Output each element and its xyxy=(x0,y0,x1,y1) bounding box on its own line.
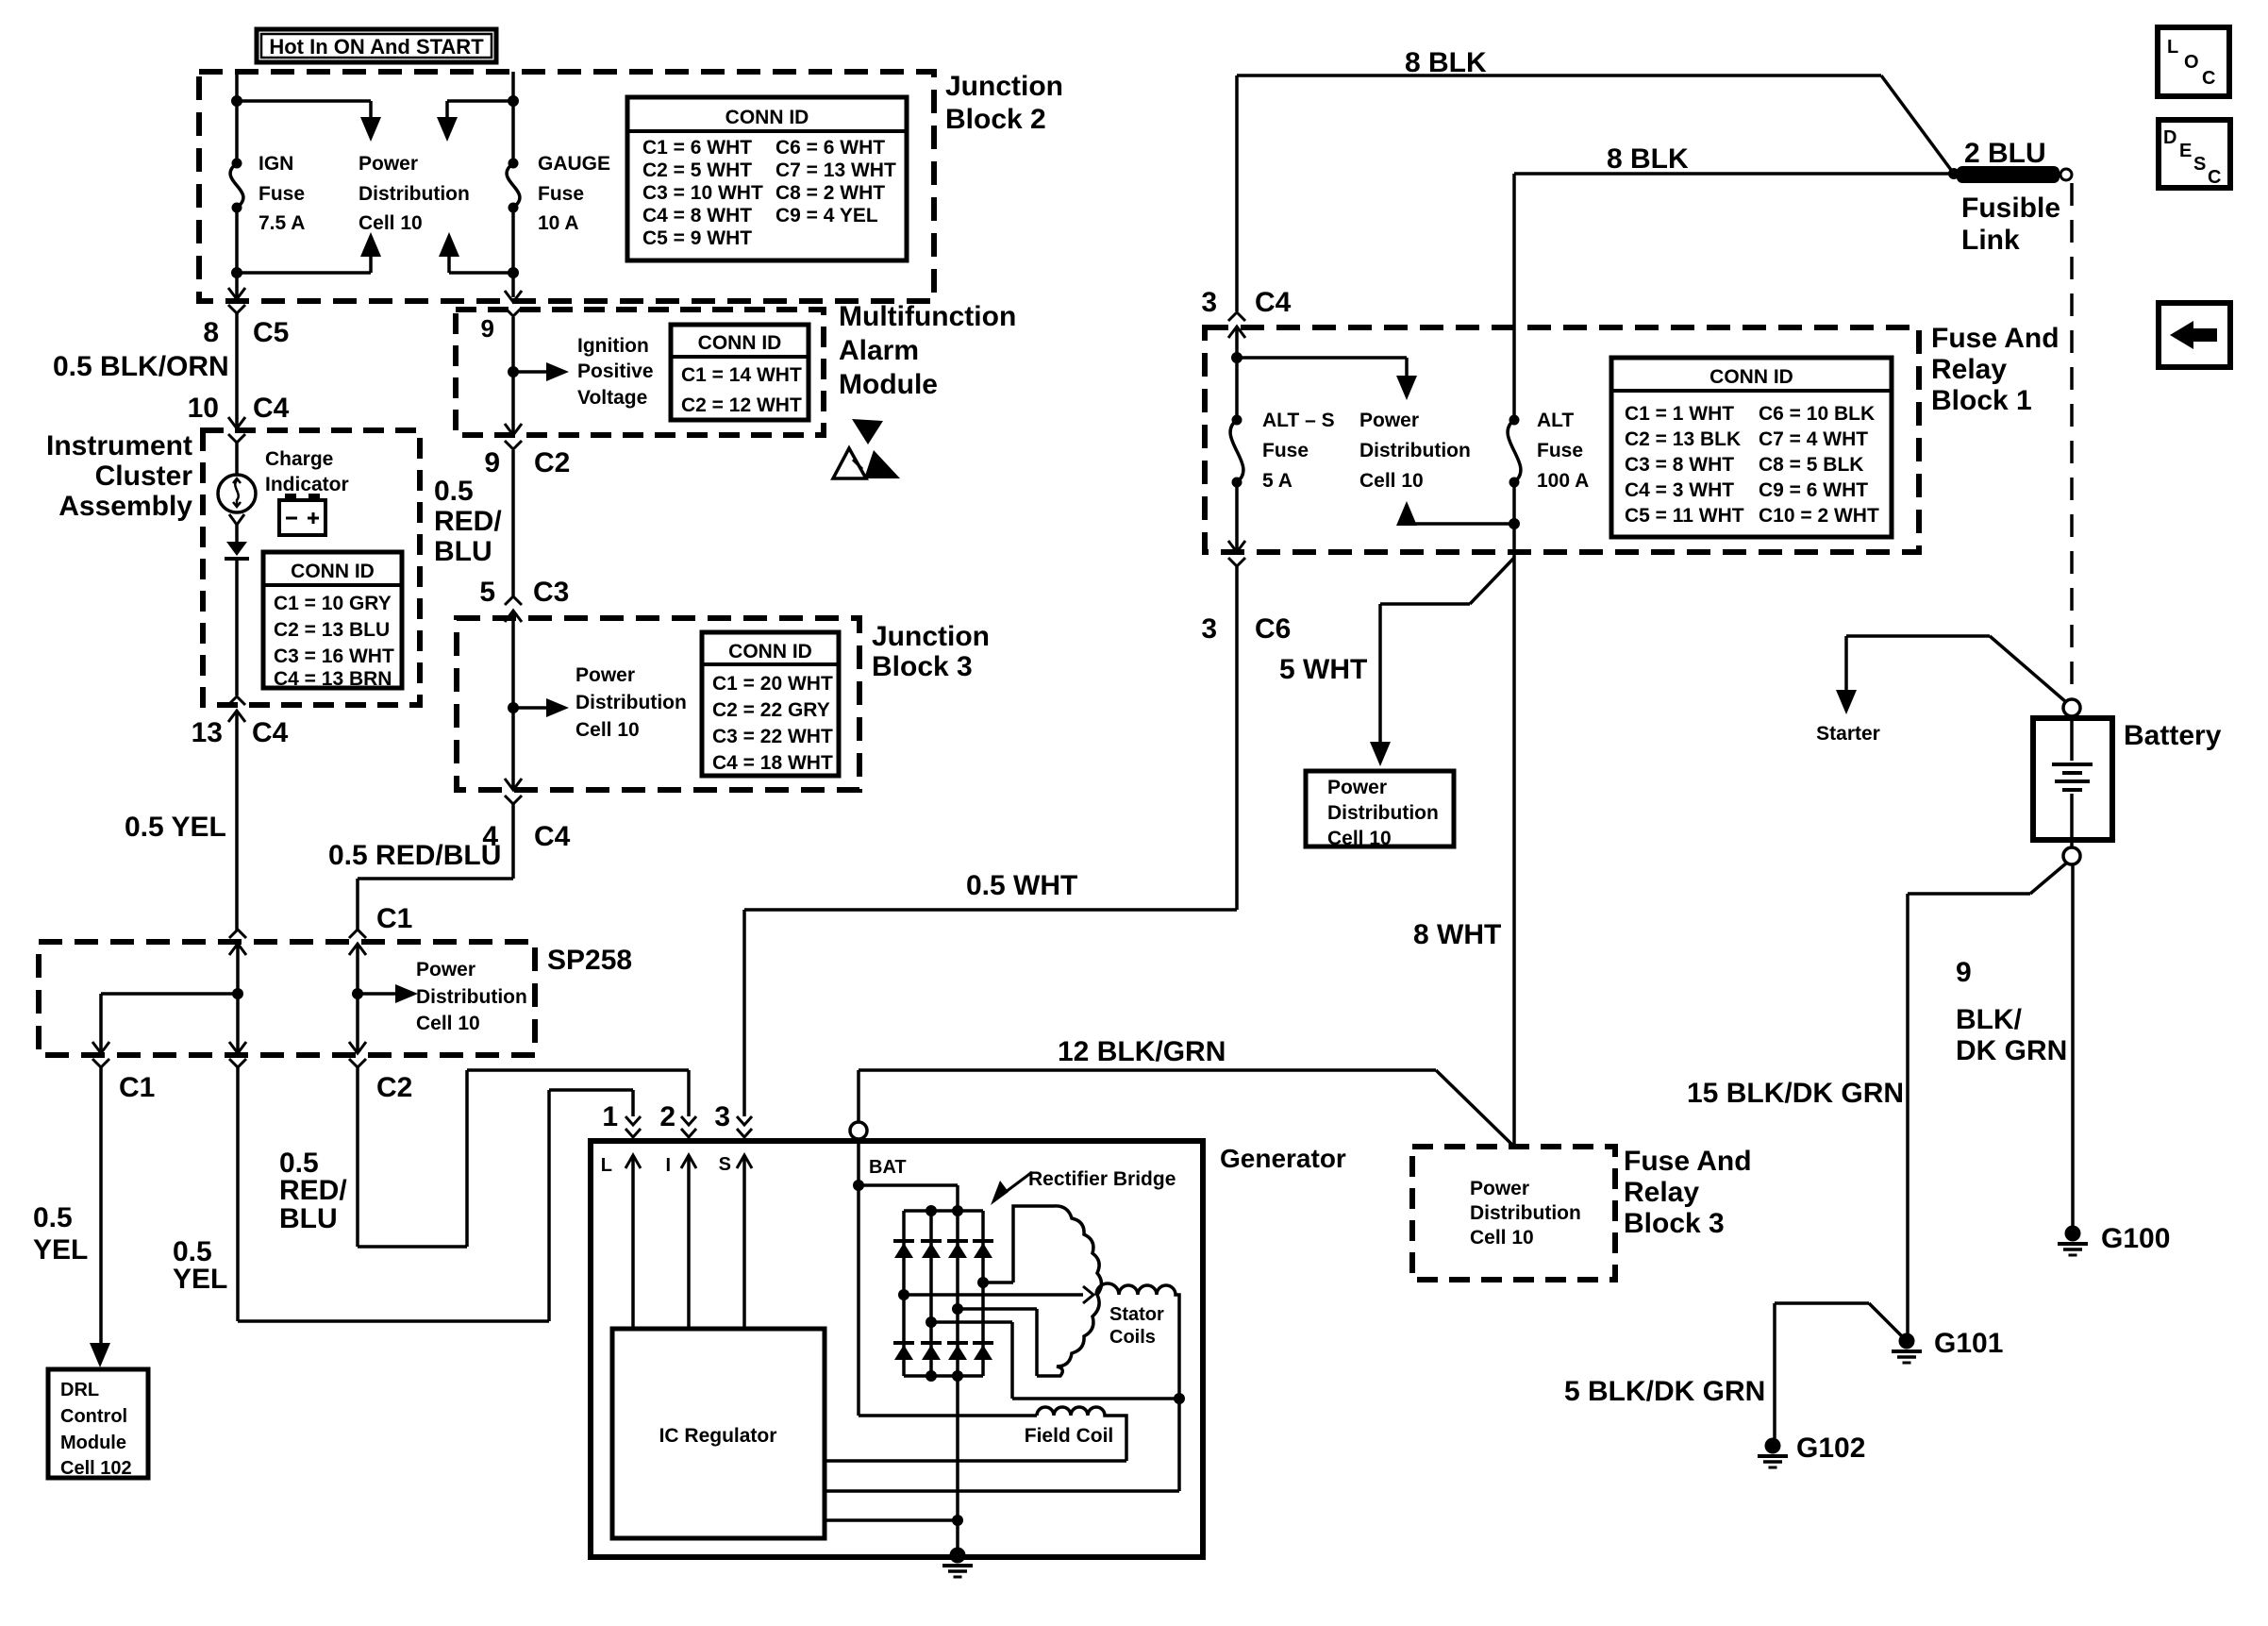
rectifier bridge buses xyxy=(904,1205,983,1382)
svg-text:ALT: ALT xyxy=(1537,410,1574,431)
svg-text:Cluster: Cluster xyxy=(95,461,193,492)
svg-text:Cell 10: Cell 10 xyxy=(1470,1227,1534,1249)
wire 0.5 WHT (to generator S) xyxy=(744,566,1237,1116)
stator coils fan xyxy=(1013,1206,1102,1376)
svg-text:Power: Power xyxy=(1327,777,1387,798)
label Power Distribution Cell 10 (JB3) xyxy=(575,664,687,741)
connector C1 (SP258 bottom left) xyxy=(92,1042,155,1103)
svg-text:D: D xyxy=(2163,127,2176,148)
svg-text:3: 3 xyxy=(714,1101,730,1132)
fuse ALT-S 5 A xyxy=(1230,410,1335,492)
svg-text:Instrument: Instrument xyxy=(46,430,192,461)
svg-text:0.5: 0.5 xyxy=(434,476,474,507)
svg-text:C1 = 20 WHT: C1 = 20 WHT xyxy=(712,673,833,695)
label Junction Block 3 xyxy=(872,621,990,682)
wire ALT fuse drop xyxy=(1508,410,1589,492)
wire 0.5 YEL (cluster to SP258) xyxy=(125,711,237,930)
svg-text:C2 = 22 GRY: C2 = 22 GRY xyxy=(712,699,830,721)
label Generator xyxy=(1220,1144,1346,1173)
svg-text:CONN ID: CONN ID xyxy=(291,561,375,582)
svg-text:Stator: Stator xyxy=(1109,1304,1164,1325)
connector table CONN ID junction block 3 xyxy=(702,632,839,776)
label pin 9 (module top) xyxy=(481,314,494,343)
svg-text:C3 = 16 WHT: C3 = 16 WHT xyxy=(274,645,394,667)
svg-text:C3 = 8 WHT: C3 = 8 WHT xyxy=(1625,454,1734,476)
svg-text:2 BLU: 2 BLU xyxy=(1964,138,2046,169)
svg-text:CONN ID: CONN ID xyxy=(698,332,782,354)
svg-text:Module: Module xyxy=(839,369,938,400)
svg-text:IGN: IGN xyxy=(258,153,293,175)
svg-text:8 WHT: 8 WHT xyxy=(1413,919,1501,950)
rectifier bridge diodes row 1 xyxy=(893,1241,993,1258)
svg-text:C1 = 14 WHT: C1 = 14 WHT xyxy=(681,364,802,386)
connector C6 pin 3 xyxy=(1201,541,1291,645)
field coil xyxy=(1025,1407,1126,1461)
svg-text:BLU: BLU xyxy=(434,536,492,567)
rectifier bridge diodes row 2 xyxy=(893,1343,993,1360)
svg-text:SP258: SP258 xyxy=(547,945,632,976)
svg-text:8 BLK: 8 BLK xyxy=(1607,143,1689,175)
svg-text:Alarm: Alarm xyxy=(839,335,919,366)
ground G101 xyxy=(1892,1328,2003,1363)
connector C4 pin 3 (FRB1 top) xyxy=(1201,287,1291,338)
wire 0.5 BLK/ORN xyxy=(53,313,237,427)
header box back-arrow xyxy=(2159,303,2230,367)
svg-text:C4: C4 xyxy=(534,821,571,852)
wire 8 WHT label xyxy=(1413,919,1501,950)
svg-text:Block 1: Block 1 xyxy=(1931,385,2032,416)
svg-text:C7 = 4 WHT: C7 = 4 WHT xyxy=(1759,428,1868,450)
battery xyxy=(2033,699,2222,864)
svg-text:Power: Power xyxy=(1470,1178,1529,1199)
svg-text:S: S xyxy=(2193,154,2206,175)
svg-text:G101: G101 xyxy=(1934,1328,2003,1359)
svg-text:C7 = 13 WHT: C7 = 13 WHT xyxy=(775,159,896,181)
label Power Distribution Cell 10 (FRB3) xyxy=(1470,1178,1581,1249)
connector generator terminal 2 xyxy=(659,1101,696,1137)
diode symbol xyxy=(225,542,249,559)
wire GAUGE fuse feed xyxy=(511,72,515,297)
svg-text:ALT – S: ALT – S xyxy=(1262,410,1335,431)
svg-text:C4 = 18 WHT: C4 = 18 WHT xyxy=(712,752,833,774)
fuse and relay block 3 dashed outline xyxy=(1412,1147,1615,1280)
svg-text:Field Coil: Field Coil xyxy=(1025,1425,1114,1447)
svg-text:Block 2: Block 2 xyxy=(945,104,1046,135)
svg-text:YEL: YEL xyxy=(33,1234,88,1266)
IC regulator wire to field coil xyxy=(825,1459,1126,1463)
svg-text:C8 = 2 WHT: C8 = 2 WHT xyxy=(775,182,885,204)
svg-text:Distribution: Distribution xyxy=(1359,440,1471,461)
generator terminal I xyxy=(665,1155,696,1329)
svg-text:Positive: Positive xyxy=(577,360,654,382)
instrument cluster assembly dashed outline xyxy=(203,430,420,705)
svg-text:S: S xyxy=(719,1154,731,1175)
wire 5 BLK/DK GRN to G102 xyxy=(1564,1303,1903,1438)
svg-text:C3 = 10 WHT: C3 = 10 WHT xyxy=(642,182,763,204)
connector table CONN ID multifunction alarm module xyxy=(671,325,809,420)
svg-text:Indicator: Indicator xyxy=(265,474,349,495)
IC regulator wire to ground bus xyxy=(825,1515,963,1526)
wire 0.5 RED/BLU (module to JB3) xyxy=(434,450,513,596)
svg-text:Block 3: Block 3 xyxy=(872,651,973,682)
svg-text:C4: C4 xyxy=(1255,287,1292,318)
svg-text:C5 = 9 WHT: C5 = 9 WHT xyxy=(642,227,752,249)
label Fuse And Relay Block 3 xyxy=(1624,1146,1752,1239)
svg-text:YEL: YEL xyxy=(173,1264,227,1295)
svg-text:Cell 10: Cell 10 xyxy=(416,1013,480,1034)
label Rectifier Bridge with arrow xyxy=(991,1168,1176,1205)
svg-text:Junction: Junction xyxy=(872,621,990,652)
wire power distribution return (right bottom) xyxy=(439,232,519,278)
svg-text:Power: Power xyxy=(1359,410,1419,431)
svg-text:15 BLK/DK GRN: 15 BLK/DK GRN xyxy=(1687,1078,1904,1109)
fusible link 2 BLU xyxy=(1948,138,2072,256)
svg-text:8: 8 xyxy=(203,317,219,348)
wire 5 WHT xyxy=(1279,558,1514,766)
multifunction alarm module dashed outline xyxy=(456,310,824,435)
label SP258 xyxy=(547,945,632,976)
svg-text:Control: Control xyxy=(60,1406,127,1427)
wire ALT-S fuse feed xyxy=(1231,327,1417,420)
connector C2 (SP258 bottom right) xyxy=(349,1042,412,1103)
DRL control module box xyxy=(48,1369,148,1479)
svg-text:C5 = 11 WHT: C5 = 11 WHT xyxy=(1625,505,1744,527)
wire 9 BLK/DK GRN to G100 xyxy=(1956,864,2073,1226)
connector C1 (SP258 top) xyxy=(376,903,412,934)
label Charge Indicator xyxy=(265,448,349,495)
wire BAT internal xyxy=(853,1139,1037,1416)
ground G102 xyxy=(1758,1433,1865,1467)
svg-text:Hot In ON And START: Hot In ON And START xyxy=(269,35,484,59)
svg-text:Distribution: Distribution xyxy=(1470,1202,1581,1224)
wire junction to power distribution (right top) xyxy=(437,95,519,142)
svg-text:2: 2 xyxy=(659,1101,675,1132)
wire 0.5 RED/BLU to generator I xyxy=(279,1067,689,1247)
label Junction Block 2 xyxy=(945,71,1063,135)
svg-text:Fuse And: Fuse And xyxy=(1931,323,2060,354)
svg-text:3: 3 xyxy=(1201,613,1217,645)
svg-text:C5: C5 xyxy=(253,317,289,348)
svg-text:5 BLK/DK GRN: 5 BLK/DK GRN xyxy=(1564,1376,1765,1407)
svg-text:8 BLK: 8 BLK xyxy=(1405,47,1487,78)
svg-text:C: C xyxy=(2202,68,2215,89)
header box LOC xyxy=(2158,27,2229,96)
svg-text:BLU: BLU xyxy=(279,1203,338,1234)
svg-text:Fuse: Fuse xyxy=(1262,440,1309,461)
junction block 3 dashed outline xyxy=(457,618,859,790)
svg-text:3: 3 xyxy=(1201,287,1217,318)
svg-text:0.5 RED/BLU: 0.5 RED/BLU xyxy=(328,840,501,871)
svg-text:C1 = 1 WHT: C1 = 1 WHT xyxy=(1625,403,1734,425)
svg-text:C: C xyxy=(2208,167,2221,188)
wire to cluster bottom xyxy=(235,559,239,696)
label Power Distribution Cell 10 (FRB1) xyxy=(1359,410,1471,492)
charge indicator lamp xyxy=(218,443,256,512)
generator box xyxy=(591,1141,1203,1557)
svg-text:RED/: RED/ xyxy=(434,506,502,537)
svg-text:G100: G100 xyxy=(2101,1223,2170,1254)
svg-text:9: 9 xyxy=(481,314,494,343)
IC regulator wire to stator xyxy=(825,1399,1179,1491)
svg-text:Fusible: Fusible xyxy=(1961,193,2060,224)
svg-text:C3 = 22 WHT: C3 = 22 WHT xyxy=(712,726,833,747)
svg-text:IC Regulator: IC Regulator xyxy=(659,1425,777,1447)
wire 15 BLK/DK GRN to G101 xyxy=(1687,863,2067,1333)
svg-text:L: L xyxy=(2167,37,2178,58)
svg-text:C2: C2 xyxy=(534,447,570,478)
svg-text:Cell 10: Cell 10 xyxy=(359,212,423,234)
fuse IGN 7.5 A xyxy=(230,153,305,234)
svg-text:CONN ID: CONN ID xyxy=(728,641,812,662)
connector generator terminal 3 xyxy=(714,1101,752,1137)
connector into SP258 (C1) xyxy=(349,930,366,955)
svg-text:DK GRN: DK GRN xyxy=(1956,1035,2067,1066)
fuse GAUGE 10 A xyxy=(507,153,610,234)
svg-text:9: 9 xyxy=(484,447,500,478)
svg-text:Multifunction: Multifunction xyxy=(839,301,1016,332)
connector C5 pin 8 xyxy=(203,288,289,348)
svg-text:I: I xyxy=(665,1155,671,1176)
svg-text:BLK/: BLK/ xyxy=(1956,1004,2023,1035)
SP258 internal wires xyxy=(101,944,418,1053)
svg-text:Relay: Relay xyxy=(1624,1177,1699,1208)
svg-text:RED/: RED/ xyxy=(279,1175,347,1206)
fuse and relay block 1 dashed outline xyxy=(1205,327,1919,552)
svg-text:L: L xyxy=(601,1155,612,1176)
stator phase wire C xyxy=(952,1303,1037,1376)
wire power distribution return (left bottom) xyxy=(231,232,381,278)
connector (SP258 bottom middle) xyxy=(229,1042,246,1067)
generator terminal S xyxy=(719,1154,752,1329)
connector C3 pin 5 xyxy=(479,577,569,622)
svg-text:Assembly: Assembly xyxy=(58,491,192,522)
svg-text:12 BLK/GRN: 12 BLK/GRN xyxy=(1058,1036,1226,1067)
svg-text:100 A: 100 A xyxy=(1537,470,1589,492)
connector C2 pin 9 xyxy=(484,424,570,478)
svg-text:Rectifier Bridge: Rectifier Bridge xyxy=(1028,1168,1176,1190)
label Fuse And Relay Block 1 xyxy=(1931,323,2060,416)
wire ALT-S fuse output xyxy=(1235,482,1239,552)
svg-text:O: O xyxy=(2184,52,2199,73)
svg-text:C4: C4 xyxy=(253,393,290,424)
SP258 dashed outline xyxy=(39,942,535,1055)
fork below charge indicator xyxy=(229,514,244,544)
svg-text:Junction: Junction xyxy=(945,71,1063,102)
generator terminal L xyxy=(601,1155,641,1329)
svg-text:Link: Link xyxy=(1961,225,2020,256)
svg-text:5 A: 5 A xyxy=(1262,470,1292,492)
wire 0.5 YEL to generator L xyxy=(173,1067,633,1321)
svg-text:Distribution: Distribution xyxy=(1327,802,1439,824)
svg-text:C10 = 2 WHT: C10 = 2 WHT xyxy=(1759,505,1879,527)
ground G100 xyxy=(2058,1223,2170,1255)
BAT terminal circle xyxy=(850,1122,907,1178)
wire junction to power distribution (left top) xyxy=(231,95,381,142)
connector C4 pin 10 xyxy=(188,393,290,443)
ESD warning symbol xyxy=(833,419,900,478)
wire ALT fuse lower junction xyxy=(1396,482,1520,1147)
connector C4 pin 13 xyxy=(192,696,289,748)
svg-text:Cell 10: Cell 10 xyxy=(1327,828,1392,849)
svg-text:C9 = 4 YEL: C9 = 4 YEL xyxy=(775,205,878,226)
wire ignition positive voltage xyxy=(508,317,569,433)
dashed battery feed wire xyxy=(2070,183,2074,696)
wire 8 BLK (upper) xyxy=(1237,47,1954,311)
svg-text:E: E xyxy=(2179,141,2192,161)
svg-text:Distribution: Distribution xyxy=(416,986,527,1008)
wire through junction block 3 xyxy=(508,611,569,788)
svg-text:Coils: Coils xyxy=(1109,1327,1156,1348)
label Ignition Positive Voltage xyxy=(577,335,654,409)
svg-text:Fuse: Fuse xyxy=(538,183,584,205)
svg-text:0.5 BLK/ORN: 0.5 BLK/ORN xyxy=(53,351,229,382)
svg-text:Fuse: Fuse xyxy=(1537,440,1583,461)
svg-text:Ignition: Ignition xyxy=(577,335,649,357)
svg-text:0.5 WHT: 0.5 WHT xyxy=(966,870,1077,901)
power distribution cell 10 box (right) xyxy=(1306,771,1454,849)
wire 0.5 RED/BLU (JB3 to SP258 C1) xyxy=(328,804,513,930)
connector table CONN ID fuse and relay block 1 xyxy=(1611,358,1892,537)
wire 12 BLK/GRN xyxy=(859,1036,1514,1147)
svg-text:Power: Power xyxy=(575,664,635,686)
header box DESC xyxy=(2159,120,2230,188)
svg-text:Distribution: Distribution xyxy=(575,692,687,713)
svg-text:C6 = 10 BLK: C6 = 10 BLK xyxy=(1759,403,1875,425)
IC regulator box xyxy=(612,1329,825,1538)
wire 8 BLK (lower) xyxy=(1514,143,1954,420)
svg-text:C2 = 13 BLK: C2 = 13 BLK xyxy=(1625,428,1741,450)
svg-text:7.5 A: 7.5 A xyxy=(258,212,305,234)
wire IGN fuse feed xyxy=(235,72,239,297)
stator coils winding xyxy=(1096,1283,1179,1399)
svg-text:G102: G102 xyxy=(1796,1433,1865,1464)
svg-text:Voltage: Voltage xyxy=(577,387,647,409)
svg-text:Battery: Battery xyxy=(2124,720,2222,751)
svg-text:13: 13 xyxy=(192,717,223,748)
svg-text:1: 1 xyxy=(602,1101,618,1132)
svg-text:C1 = 10 GRY: C1 = 10 GRY xyxy=(274,593,392,614)
svg-text:10 A: 10 A xyxy=(538,212,579,234)
svg-text:C6 = 6 WHT: C6 = 6 WHT xyxy=(775,137,885,159)
svg-text:C4: C4 xyxy=(252,717,289,748)
svg-text:Generator: Generator xyxy=(1220,1144,1346,1173)
svg-text:Starter: Starter xyxy=(1816,723,1880,745)
svg-text:9: 9 xyxy=(1956,957,1972,988)
svg-text:Cell 10: Cell 10 xyxy=(1359,470,1424,492)
connector C4 pin 4 xyxy=(482,779,570,852)
svg-text:Charge: Charge xyxy=(265,448,333,470)
svg-text:C2 = 5 WHT: C2 = 5 WHT xyxy=(642,159,752,181)
connector table CONN ID instrument cluster xyxy=(263,552,402,690)
label Power Distribution Cell 10 (JB2) xyxy=(359,153,470,234)
svg-text:Module: Module xyxy=(60,1433,126,1453)
svg-text:C1 = 6 WHT: C1 = 6 WHT xyxy=(642,137,752,159)
svg-text:Block 3: Block 3 xyxy=(1624,1208,1725,1239)
connector into SP258 (0.5 YEL) xyxy=(229,930,246,955)
rectifier bridge columns xyxy=(904,1185,983,1376)
label Multifunction Alarm Module xyxy=(839,301,1016,400)
label Instrument Cluster Assembly xyxy=(46,430,192,522)
svg-text:C8 = 5 BLK: C8 = 5 BLK xyxy=(1759,454,1863,476)
svg-text:Relay: Relay xyxy=(1931,354,2007,385)
svg-text:Cell 10: Cell 10 xyxy=(575,719,640,741)
connector at JB2 bottom right xyxy=(505,291,522,316)
svg-text:DRL: DRL xyxy=(60,1380,99,1400)
generator ground xyxy=(942,1376,973,1577)
svg-text:10: 10 xyxy=(188,393,219,424)
svg-text:5 WHT: 5 WHT xyxy=(1279,654,1367,685)
junction block 2 dashed outline xyxy=(199,72,934,301)
svg-text:C2 = 12 WHT: C2 = 12 WHT xyxy=(681,394,802,416)
svg-text:CONN ID: CONN ID xyxy=(1709,366,1793,388)
label box "Hot In ON And START" xyxy=(257,29,496,62)
svg-text:Fuse: Fuse xyxy=(258,183,305,205)
svg-text:C2 = 13 BLU: C2 = 13 BLU xyxy=(274,619,390,641)
stator phase wire D xyxy=(926,1316,1185,1404)
wire 0.5 YEL to DRL module xyxy=(33,1067,110,1367)
svg-text:Distribution: Distribution xyxy=(359,183,470,205)
svg-text:CONN ID: CONN ID xyxy=(725,107,809,128)
battery icon (charge indicator) xyxy=(279,494,325,535)
svg-text:5: 5 xyxy=(479,577,495,608)
svg-text:C1: C1 xyxy=(119,1072,155,1103)
svg-text:0.5: 0.5 xyxy=(33,1202,73,1233)
wire to starter xyxy=(1816,636,2066,745)
svg-text:C4 = 13 BRN: C4 = 13 BRN xyxy=(274,668,392,690)
stator phase wire A xyxy=(898,1286,1093,1303)
svg-text:C2: C2 xyxy=(376,1072,412,1103)
svg-text:C6: C6 xyxy=(1255,613,1291,645)
stator phase wire B xyxy=(977,1277,1013,1288)
svg-text:BAT: BAT xyxy=(869,1157,907,1178)
svg-text:0.5 YEL: 0.5 YEL xyxy=(125,812,226,843)
svg-text:C4 = 3 WHT: C4 = 3 WHT xyxy=(1625,479,1734,501)
svg-text:Cell 102: Cell 102 xyxy=(60,1458,132,1479)
label Power Distribution Cell 10 (SP258) xyxy=(416,959,527,1034)
svg-text:Power: Power xyxy=(359,153,418,175)
svg-text:C9 = 6 WHT: C9 = 6 WHT xyxy=(1759,479,1868,501)
connector generator terminal 1 xyxy=(602,1101,641,1137)
svg-text:Power: Power xyxy=(416,959,475,981)
svg-text:GAUGE: GAUGE xyxy=(538,153,610,175)
svg-text:Fuse And: Fuse And xyxy=(1624,1146,1752,1177)
svg-text:C1: C1 xyxy=(376,903,412,934)
svg-text:C4 = 8 WHT: C4 = 8 WHT xyxy=(642,205,752,226)
svg-text:C3: C3 xyxy=(533,577,569,608)
connector table CONN ID junction block 2 xyxy=(627,97,907,260)
